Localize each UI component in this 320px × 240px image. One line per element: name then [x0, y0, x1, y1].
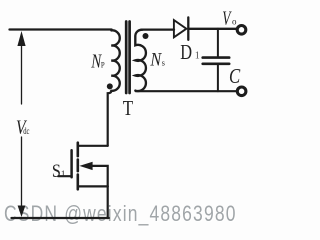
- svg-text:P: P: [101, 59, 105, 69]
- mosfet channel bar segment 2: [77, 160, 80, 172]
- primary phase dot: [107, 83, 113, 89]
- output terminal bottom: [237, 87, 246, 96]
- svg-text:o: o: [232, 17, 237, 27]
- Vdc arrow down head: [18, 206, 26, 218]
- capacitor top lead: [217, 29, 219, 57]
- transformer primary winding NP: [111, 30, 119, 91]
- svg-text:dc: dc: [23, 126, 29, 136]
- svg-text:1: 1: [195, 51, 200, 62]
- mosfet channel bar segment 3: [77, 175, 80, 190]
- diode D1 cathode bar: [187, 17, 189, 39]
- secondary phase dot: [143, 33, 149, 39]
- svg-text:S: S: [52, 161, 61, 182]
- mosfet body lead: [92, 166, 108, 187]
- capacitor C bottom plate: [203, 62, 230, 65]
- capacitor C top plate: [203, 56, 230, 59]
- Vdc arrow up head: [17, 31, 25, 46]
- svg-text:T: T: [123, 96, 134, 120]
- wire secondary top to diode: [142, 29, 175, 31]
- transformer core: [125, 22, 128, 94]
- mosfet gate bar: [70, 150, 73, 177]
- mosfet body arrow: [79, 162, 92, 170]
- svg-text:V: V: [222, 8, 232, 29]
- mosfet S1 drain lead: [79, 145, 108, 147]
- svg-text:D: D: [180, 40, 192, 64]
- svg-text:1: 1: [61, 169, 66, 179]
- Vdc arrow line upper: [21, 45, 23, 104]
- mosfet source lead: [78, 185, 108, 187]
- wire secondary bottom rail: [136, 90, 237, 92]
- svg-text:s: s: [162, 58, 165, 68]
- mosfet gate lead: [58, 175, 71, 177]
- transformer secondary winding Ns: [135, 30, 146, 91]
- wire source down: [107, 186, 109, 218]
- watermark: [4, 201, 237, 227]
- svg-text:C: C: [229, 64, 241, 88]
- wire diode to output: [188, 28, 236, 30]
- wire primary bottom to drain: [108, 91, 112, 146]
- diode D1 triangle: [174, 20, 187, 37]
- Vdc arrow line lower: [21, 137, 23, 206]
- mosfet channel bar segment 1: [77, 143, 80, 156]
- output terminal top: [237, 26, 246, 35]
- wire top-left rail: [10, 28, 112, 30]
- wire bottom rail: [12, 217, 109, 219]
- capacitor bottom lead: [217, 65, 219, 91]
